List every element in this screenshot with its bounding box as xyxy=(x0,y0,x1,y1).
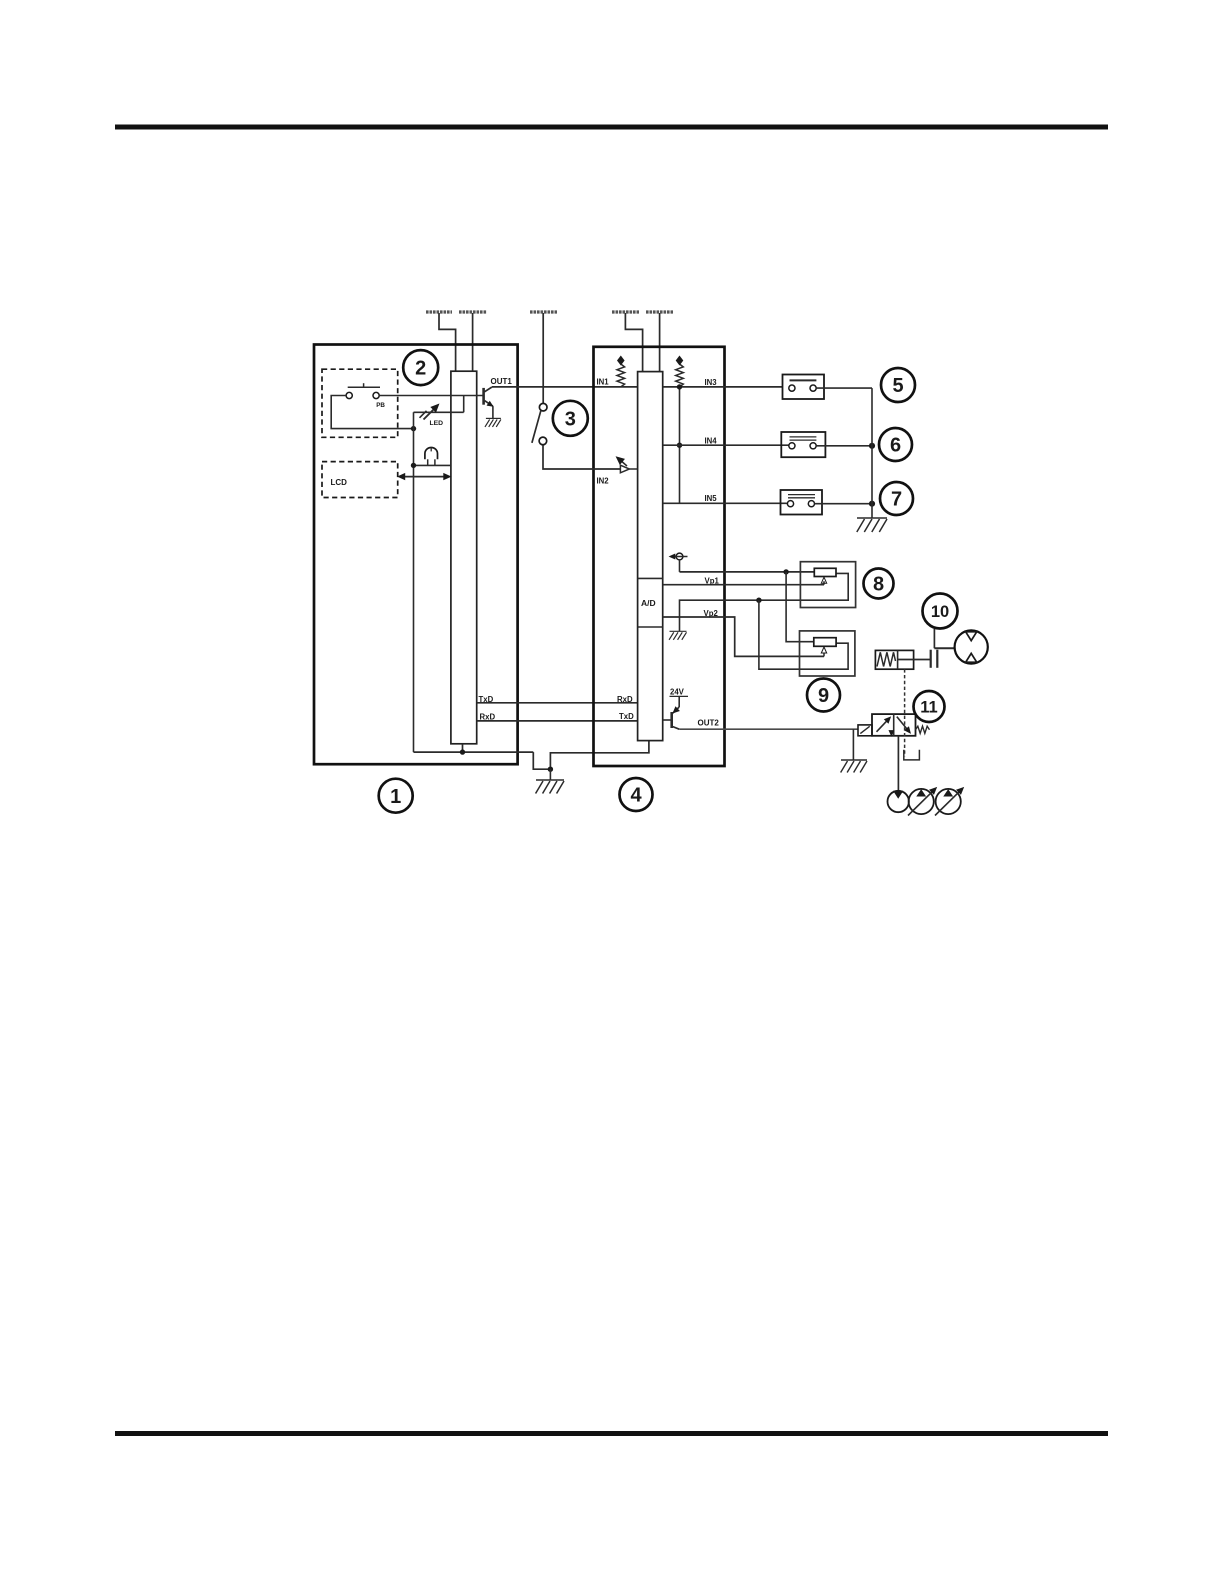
supply arrow R-IN1 xyxy=(617,356,625,366)
transistor Q1 collector xyxy=(485,387,492,392)
wire TxD-RxD xyxy=(477,702,638,704)
transistor Q2 collector xyxy=(673,707,679,713)
node PB/ground-bus junction xyxy=(411,426,416,431)
block 4 driver box xyxy=(594,347,725,766)
node inter-block ground junction xyxy=(548,767,553,772)
push button PB contacts xyxy=(346,392,352,398)
wire PB left to ground bus xyxy=(331,396,412,429)
wire buzzer branch xyxy=(414,464,451,466)
callout 9 xyxy=(807,679,840,712)
IN2 signal arrow xyxy=(620,460,628,467)
power rail V5 xyxy=(646,310,673,313)
node IN4 junction xyxy=(677,443,682,448)
hydraulic motor M1 xyxy=(955,630,988,663)
potentiometer VR1 body xyxy=(814,568,836,576)
ground at valve pilot xyxy=(841,759,867,761)
wire IN3-IN4-IN5 common xyxy=(679,387,681,503)
wire switch7 to ground bus xyxy=(815,503,873,505)
transistor Q1 base bar xyxy=(482,388,485,405)
buzzer legs xyxy=(427,459,429,465)
potentiometer VR2 body xyxy=(814,638,836,647)
motor M1 top triangle xyxy=(966,632,977,641)
wire OUT1 to IN1 xyxy=(492,386,638,388)
wire IN3 xyxy=(663,386,783,388)
svg-text:TxD: TxD xyxy=(619,712,634,721)
node IN3 junction xyxy=(677,384,682,389)
push-button dashed enclosure xyxy=(322,369,398,437)
wire RxD-TxD xyxy=(477,720,638,722)
limit switch 5 contacts xyxy=(789,385,795,391)
callout 3 xyxy=(553,401,588,436)
svg-text:8: 8 xyxy=(873,574,884,596)
svg-text:A/D: A/D xyxy=(641,598,656,608)
limit switch 5 bar xyxy=(790,379,817,381)
node pot ground junction xyxy=(756,598,761,603)
block 1 CPU bus strip xyxy=(451,371,477,744)
pump P1 fixed xyxy=(888,791,909,812)
power rail V4 xyxy=(612,310,639,313)
svg-text:LCD: LCD xyxy=(331,478,348,487)
svg-text:PB: PB xyxy=(376,402,385,409)
wire ground branch to pot9 xyxy=(759,600,848,669)
solenoid spring xyxy=(877,652,896,666)
svg-text:6: 6 xyxy=(890,435,901,457)
A/D converter section xyxy=(638,577,663,579)
wire supply branch to pot9 xyxy=(786,572,814,642)
wire stub to ground symbol xyxy=(549,769,551,780)
svg-text:LED: LED xyxy=(430,420,444,427)
wire Q1 emitter to ground xyxy=(492,406,494,418)
LCD dashed box xyxy=(322,462,398,498)
wire switch6 to ground bus xyxy=(816,445,872,447)
wire rail V2 to block1 bus xyxy=(472,313,474,371)
supply symbol for potentiometers xyxy=(676,553,683,560)
power rail V3 xyxy=(530,310,557,313)
pump P3 flow triangle xyxy=(944,790,952,796)
callout 11 xyxy=(914,691,945,722)
wire Vp1 xyxy=(663,584,824,586)
svg-text:IN5: IN5 xyxy=(705,494,718,503)
wire inter-block ground dip xyxy=(533,741,649,770)
wire PB right to Q1 base xyxy=(379,395,483,397)
ground at limit switches xyxy=(857,517,887,519)
limit switch box 7 xyxy=(781,490,823,515)
LCD data bus double arrow xyxy=(403,476,448,478)
push button PB actuator bar xyxy=(348,386,380,388)
svg-text:IN3: IN3 xyxy=(705,378,718,387)
LED D1 xyxy=(424,407,437,420)
ground between blocks xyxy=(536,779,564,781)
pump P2 variable xyxy=(909,789,934,814)
limit switch 6 bar xyxy=(790,436,817,438)
wire circle10 stem xyxy=(933,629,935,649)
svg-text:7: 7 xyxy=(891,489,902,511)
potentiometer unit 8 box xyxy=(800,562,855,608)
svg-text:IN1: IN1 xyxy=(597,378,610,387)
limit switch 6 contacts xyxy=(789,443,795,449)
valve left position arrow xyxy=(877,719,889,732)
wire switch3 to IN2 xyxy=(543,445,620,469)
block 4 bus strip xyxy=(638,372,663,741)
callout 5 xyxy=(881,368,915,402)
wire block1 ground bus xyxy=(414,751,534,753)
svg-text:RxD: RxD xyxy=(617,695,633,704)
buzzer BZ dome xyxy=(425,448,438,460)
wire pot ground return xyxy=(680,573,849,631)
valve right position arrow xyxy=(897,717,909,732)
svg-text:1: 1 xyxy=(390,786,401,808)
actuator rod xyxy=(898,659,931,661)
power rail V1 xyxy=(426,310,452,313)
toggle switch S1 blade xyxy=(532,411,541,443)
svg-text:OUT1: OUT1 xyxy=(491,377,513,386)
svg-text:Vp2: Vp2 xyxy=(704,609,719,618)
potentiometer unit 9 box xyxy=(800,631,855,676)
pump P2 variable arrow xyxy=(908,790,934,815)
potentiometer VR2 wiper xyxy=(823,653,825,657)
valve return spring xyxy=(916,726,930,733)
potentiometer VR1 wiper xyxy=(823,581,825,585)
wire limit switch ground bus xyxy=(871,388,873,518)
pump P3 variable arrow xyxy=(935,790,961,815)
callout 1 xyxy=(379,779,413,813)
wire rail V4 to block4 bus xyxy=(625,313,642,372)
limit switch 7 bar xyxy=(788,494,815,496)
ground at A/D reference xyxy=(670,630,687,632)
callout 7 xyxy=(880,482,913,515)
svg-text:3: 3 xyxy=(565,408,576,430)
limit switch 7 contacts xyxy=(787,501,793,507)
node pot supply junction xyxy=(783,569,788,574)
svg-text:4: 4 xyxy=(630,785,642,807)
IN2 input arrow xyxy=(620,465,629,473)
callout 4 xyxy=(620,778,653,811)
wire rail V1 to block1 bus xyxy=(439,313,456,371)
callout 2 xyxy=(403,350,438,385)
resistor R-IN3 pull-up xyxy=(676,364,684,387)
svg-text:10: 10 xyxy=(931,603,949,621)
node strip1/bus junction xyxy=(460,749,465,754)
wire rail V3 to switch 3 xyxy=(542,313,544,403)
shaft coupling bars xyxy=(930,650,932,668)
svg-text:5: 5 xyxy=(892,375,903,397)
node bus-switch6 junction xyxy=(869,443,875,449)
proportional solenoid box xyxy=(875,650,913,669)
svg-text:2: 2 xyxy=(415,358,426,380)
wire switch5 to ground bus xyxy=(816,387,872,389)
pump P1 flow triangle xyxy=(894,791,902,798)
wire valve ground stub xyxy=(852,729,854,760)
transistor Q1 emitter xyxy=(485,401,493,407)
motor M1 bottom triangle xyxy=(966,653,977,662)
wire IN4 xyxy=(663,444,789,446)
pump P3 variable xyxy=(936,789,961,814)
svg-text:RxD: RxD xyxy=(480,713,496,722)
page top rule xyxy=(115,125,1108,130)
callout 6 xyxy=(879,428,912,461)
resistor R-IN1 pull-up xyxy=(617,364,625,387)
ground at Q1 emitter xyxy=(486,417,501,419)
valve pilot box xyxy=(858,725,872,736)
svg-text:IN2: IN2 xyxy=(597,476,610,485)
svg-text:11: 11 xyxy=(920,698,937,716)
wire OUT2 to valve pilot xyxy=(679,728,858,730)
transistor Q2 base bar xyxy=(670,712,673,728)
wire IN5 xyxy=(663,502,788,504)
wire 24V to Q2 collector xyxy=(678,697,680,708)
node buzzer junction xyxy=(411,463,416,468)
page bottom rule xyxy=(115,1431,1108,1436)
callout 8 xyxy=(864,569,894,599)
supply arrow R-IN3 xyxy=(676,356,684,366)
pilot dashed link xyxy=(904,669,906,756)
wire rail V5 to block4 bus xyxy=(659,313,661,372)
detent bracket xyxy=(904,750,920,760)
svg-text:24V: 24V xyxy=(670,687,685,696)
callout 10 xyxy=(923,594,958,629)
wire LED branch xyxy=(414,411,464,413)
svg-text:9: 9 xyxy=(818,685,829,707)
valve port arrow xyxy=(889,731,894,736)
pump P2 flow triangle xyxy=(917,790,925,796)
valve 11 body xyxy=(872,714,916,736)
wire strip1 bottom stub xyxy=(462,744,464,752)
toggle switch S1 contacts xyxy=(539,403,547,411)
limit switch box 6 xyxy=(781,432,825,457)
limit switch box 5 xyxy=(783,375,825,400)
wire Vp2 xyxy=(663,617,824,656)
svg-text:Vp1: Vp1 xyxy=(705,577,720,586)
wire Q2 base xyxy=(663,719,671,721)
svg-text:TxD: TxD xyxy=(479,695,494,704)
block 1 controller box xyxy=(314,345,518,765)
node bus-switch7 junction xyxy=(869,501,875,507)
wire LED vertical to bus xyxy=(413,412,415,752)
svg-text:OUT2: OUT2 xyxy=(698,718,720,727)
svg-text:IN4: IN4 xyxy=(705,437,718,446)
transistor Q2 emitter xyxy=(673,727,679,730)
power rail V2 xyxy=(459,310,487,313)
wire supply to pot tops xyxy=(679,560,681,572)
wire valve to pump xyxy=(897,736,899,791)
